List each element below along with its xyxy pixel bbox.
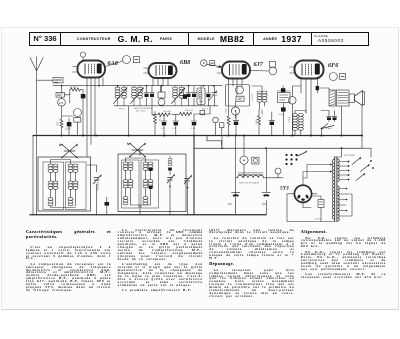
capacitor C7 bbox=[269, 112, 275, 136]
wires speaker area to bus bbox=[342, 106, 363, 148]
electrolytic C10 bbox=[232, 192, 241, 214]
resistor R2 vertical bbox=[154, 115, 157, 124]
wire bbox=[62, 86, 84, 103]
circle small right bbox=[289, 97, 297, 105]
svg-text:2.500: 2.500 bbox=[289, 116, 291, 122]
capacitor pair right of box bbox=[206, 86, 211, 106]
circle below square bbox=[269, 67, 277, 75]
svg-text:5Y3: 5Y3 bbox=[280, 186, 289, 192]
capacitor C5 bbox=[191, 114, 197, 136]
wire bbox=[172, 113, 180, 115]
junction blob on plate wire bbox=[316, 86, 319, 90]
box under meter bbox=[236, 96, 244, 101]
voltage selector taps bbox=[339, 148, 374, 216]
circle MF1 bbox=[158, 99, 165, 106]
circle 1,5 bbox=[58, 99, 66, 107]
box R5 bbox=[200, 110, 205, 114]
detector shield box bbox=[226, 85, 250, 107]
pilot circle above V1 bbox=[80, 52, 85, 57]
power transformer core bbox=[335, 157, 337, 222]
capacitor blob C2 bbox=[67, 122, 72, 126]
svg-text:6A8: 6A8 bbox=[108, 60, 118, 67]
wires bbox=[62, 106, 78, 135]
dial lamp circle bbox=[240, 156, 248, 164]
square with circle bbox=[252, 157, 259, 164]
capacitor C4 bbox=[173, 115, 179, 136]
speaker bbox=[349, 94, 354, 102]
svg-text:0,25: 0,25 bbox=[191, 128, 196, 130]
box small bbox=[220, 123, 224, 128]
plate coil 6J7 bbox=[257, 91, 262, 102]
capacitor blob above box bbox=[281, 88, 285, 92]
IF T1 padding caps bbox=[144, 86, 155, 106]
inner shield box 2b bbox=[141, 160, 159, 208]
box terre bbox=[56, 93, 64, 98]
header data strip bbox=[29, 32, 369, 46]
svg-text:6J7: 6J7 bbox=[254, 61, 264, 68]
wires below V3 bbox=[229, 79, 243, 116]
capacitor C3 bbox=[161, 115, 167, 136]
tuning arrow IF A2 bbox=[131, 89, 144, 104]
primary winding bbox=[332, 160, 334, 220]
tube V1 6A8 bbox=[73, 61, 106, 78]
svg-text:500: 500 bbox=[58, 121, 60, 126]
IF transformer T1 coil b bbox=[122, 87, 127, 98]
svg-text:8µF: 8µF bbox=[262, 204, 267, 206]
box label antenne bbox=[53, 78, 63, 83]
circle right of 6F6 bbox=[329, 73, 337, 81]
band switch S2 bbox=[127, 142, 146, 157]
svg-text:6F6: 6F6 bbox=[328, 62, 339, 69]
output transformer bbox=[336, 90, 349, 106]
inner shield box 1a bbox=[43, 162, 64, 210]
circle meter under V3 bbox=[236, 86, 244, 94]
antenna bbox=[30, 57, 43, 216]
svg-text:PADDING: PADDING bbox=[97, 180, 100, 190]
heater bus y=148.2 bbox=[194, 147, 362, 149]
svg-text:5.000: 5.000 bbox=[256, 118, 258, 124]
box MF1 bbox=[158, 92, 165, 98]
resistor vertical 5000 bbox=[258, 116, 261, 125]
svg-text:250.000: 250.000 bbox=[185, 110, 194, 112]
HT bus y=135.5 bbox=[33, 135, 362, 137]
wires box1 bbox=[51, 160, 97, 215]
svg-text:1,5: 1,5 bbox=[59, 101, 64, 105]
wires box2 bbox=[126, 150, 151, 215]
capacitor bottom box1 bbox=[105, 202, 110, 206]
svg-text:50.000: 50.000 bbox=[252, 93, 254, 100]
resistor R4 horizontal bbox=[180, 112, 192, 115]
potentiometer circle bbox=[231, 107, 239, 115]
bottom text columns bbox=[26, 229, 386, 308]
tube V3 6J7 bbox=[217, 62, 250, 79]
tuning arrow IF B2 bbox=[209, 92, 216, 101]
transformer feed bbox=[334, 148, 342, 157]
mains plug pins bbox=[285, 154, 297, 165]
circle on HT line bbox=[275, 168, 281, 174]
trimmer in box1 bbox=[93, 176, 101, 185]
wires below V1 bbox=[87, 78, 103, 158]
tone capacitors bbox=[327, 113, 337, 122]
inner shield box 1b bbox=[66, 162, 87, 210]
tuning arrow IF A bbox=[114, 89, 127, 104]
top-cap circle V3 bbox=[201, 60, 207, 66]
svg-text:0,1µF: 0,1µF bbox=[279, 114, 285, 116]
square right of circle bbox=[340, 74, 346, 80]
antenna coils L1 bbox=[48, 164, 53, 172]
top-cap square V1 bbox=[133, 57, 139, 63]
wire under IF cans y=105.8 bbox=[114, 105, 218, 107]
svg-text:25.000: 25.000 bbox=[160, 114, 162, 121]
svg-text:8µF: 8µF bbox=[228, 204, 233, 206]
band switch S1 bbox=[59, 143, 78, 158]
coils L4 bbox=[143, 162, 148, 170]
resistor 25000 bbox=[71, 88, 81, 91]
HT vertical center bbox=[193, 136, 195, 215]
inner shield box 2a bbox=[122, 160, 140, 208]
top-cap square V3 bbox=[210, 61, 215, 66]
coil box 1 bbox=[38, 157, 91, 211]
wire grid bus y=85.7 bbox=[53, 85, 222, 87]
IF transformer T1 coil a bbox=[115, 87, 120, 98]
svg-text:SECTEUR: SECTEUR bbox=[344, 155, 355, 157]
wires below V2 bbox=[153, 78, 168, 92]
resistor 500 vertical bbox=[60, 119, 63, 128]
circle small bbox=[213, 117, 219, 123]
top-cap circle V1 bbox=[123, 56, 131, 64]
capacitor blob below box bbox=[281, 107, 286, 111]
wire top-cap to V1 bbox=[104, 61, 123, 67]
ground bus y=214.8 bbox=[30, 214, 266, 216]
mains switch bbox=[298, 152, 307, 156]
misc value labels bbox=[97, 93, 355, 220]
filter choke bbox=[238, 173, 264, 178]
cathode coil V4 bbox=[293, 114, 298, 131]
secondary winding HT bbox=[338, 159, 340, 221]
svg-text:M.F. 2: M.F. 2 bbox=[202, 109, 209, 111]
svg-text:0,5µF: 0,5µF bbox=[326, 128, 332, 130]
tuning arrow IF B bbox=[172, 89, 185, 104]
core slugs bbox=[149, 168, 153, 171]
capacitor blob C1 bbox=[81, 94, 86, 98]
coils L3 bbox=[123, 162, 128, 170]
wire antenna to box bbox=[37, 79, 53, 81]
svg-text:2x0,45: 2x0,45 bbox=[315, 219, 322, 221]
svg-text:AMPLIFICATRICE: AMPLIFICATRICE bbox=[134, 107, 152, 110]
trimmer T1 right of box2 bbox=[167, 175, 174, 183]
field coil hatched bbox=[329, 90, 335, 106]
box 20 bbox=[318, 200, 324, 208]
wire cap to V3 bbox=[207, 64, 220, 66]
verticals below bus bbox=[222, 136, 266, 215]
svg-text:SELF DE FILTRAGE: SELF DE FILTRAGE bbox=[239, 182, 260, 185]
IF T1 second coil pair bbox=[132, 87, 137, 98]
svg-text:6B8: 6B8 bbox=[180, 59, 190, 66]
resistor R6 vertical bbox=[227, 116, 230, 125]
box under PU bbox=[74, 118, 81, 123]
tube V4 6F6 bbox=[290, 61, 324, 79]
box with capacitor bbox=[197, 88, 205, 105]
junction dots on HT bus bbox=[61, 135, 364, 150]
capacitor C6 bbox=[233, 112, 239, 136]
aux coil in box2 bbox=[168, 158, 172, 165]
IF transformer T2 coil a bbox=[173, 87, 178, 98]
resistor R3 horizontal bbox=[152, 114, 158, 116]
circle PU bbox=[74, 109, 82, 117]
electrolytic C11 bbox=[262, 192, 271, 214]
svg-text:M.F. DET.: M.F. DET. bbox=[136, 110, 146, 112]
square right of 6J7 bbox=[270, 62, 276, 68]
IF T2 blob bbox=[183, 94, 187, 98]
tone switch bbox=[322, 124, 335, 129]
rectifier valve 5Y3 bbox=[294, 185, 311, 202]
svg-text:25.000: 25.000 bbox=[70, 86, 78, 88]
svg-text:M.F. 1: M.F. 1 bbox=[119, 109, 126, 111]
svg-text:100.000: 100.000 bbox=[163, 111, 172, 113]
osc coils L2 bbox=[68, 164, 73, 172]
IF T2 caps bbox=[186, 86, 197, 106]
resistance box bbox=[278, 93, 291, 103]
svg-text:0,1µF: 0,1µF bbox=[65, 129, 72, 131]
wire left edge vertical bbox=[32, 136, 34, 216]
wires below V4 bbox=[301, 79, 318, 136]
svg-text:1 MΩ: 1 MΩ bbox=[226, 108, 228, 114]
tube V2 6B8 bbox=[144, 63, 177, 78]
coil box 2 bbox=[118, 154, 186, 212]
trimmer T2 bbox=[184, 176, 191, 184]
